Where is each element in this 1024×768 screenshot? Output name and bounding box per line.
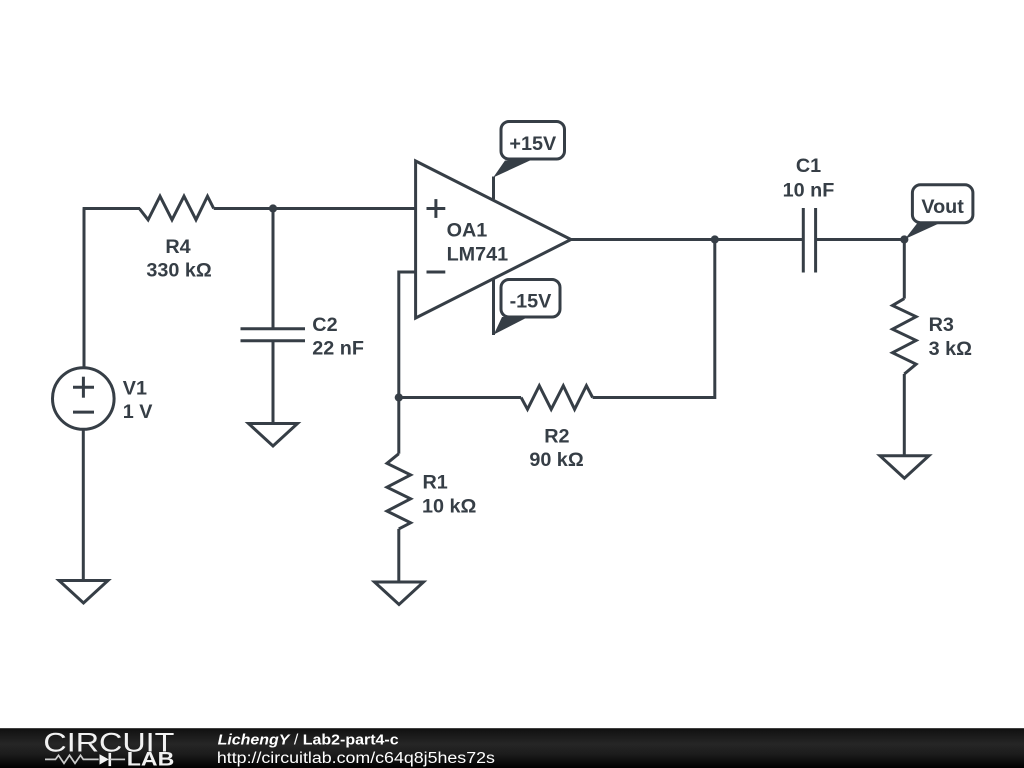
- wire: [903, 374, 906, 456]
- svg-text:V1: V1: [123, 378, 147, 400]
- ground: [375, 582, 424, 605]
- label R4 value: [146, 260, 212, 282]
- junction node Vout: [900, 235, 908, 243]
- label R2 value: [529, 449, 584, 471]
- capacitor C1: [803, 208, 815, 273]
- wire: [272, 341, 275, 424]
- wire: [83, 209, 86, 368]
- label R3: [929, 314, 954, 336]
- svg-text:R1: R1: [423, 472, 448, 494]
- junction node: [269, 204, 277, 212]
- wire: [214, 207, 416, 210]
- svg-text:LichengY / Lab2-part4-c: LichengY / Lab2-part4-c: [218, 733, 399, 749]
- resistor R2: [521, 386, 593, 410]
- svg-text:3 kΩ: 3 kΩ: [929, 338, 972, 360]
- svg-text:http://circuitlab.com/c64q8j5h: http://circuitlab.com/c64q8j5hes72s: [217, 750, 495, 767]
- svg-text:LAB: LAB: [127, 750, 175, 768]
- power flag +15V: [493, 122, 564, 178]
- wire: [399, 396, 521, 399]
- resistor R3: [893, 299, 917, 374]
- logo resistor-diode symbol: [45, 753, 125, 766]
- footer url: [217, 750, 495, 767]
- svg-text:330 kΩ: 330 kΩ: [146, 260, 212, 282]
- ground: [880, 456, 929, 479]
- svg-text:C1: C1: [796, 155, 821, 177]
- label R1 value: [422, 495, 477, 517]
- wire: [82, 429, 85, 580]
- svg-text:OA1: OA1: [447, 219, 488, 241]
- wire: [492, 278, 495, 335]
- svg-text:+15V: +15V: [509, 133, 557, 155]
- wire inverting input: [399, 272, 416, 398]
- wire: [272, 209, 275, 329]
- label V1 value: [123, 401, 153, 423]
- label C1 value: [783, 180, 835, 202]
- wire feedback: [593, 240, 715, 398]
- svg-text:LM741: LM741: [447, 244, 509, 266]
- svg-text:10 nF: 10 nF: [783, 180, 835, 202]
- logo LAB: [127, 750, 175, 768]
- label R1: [423, 472, 448, 494]
- resistor R4: [139, 196, 213, 220]
- svg-text:22 nF: 22 nF: [312, 338, 364, 360]
- ground: [249, 424, 298, 447]
- wire: [903, 240, 906, 299]
- label OA1: [447, 219, 488, 241]
- svg-text:Vout: Vout: [921, 196, 964, 218]
- footer title: [218, 733, 399, 749]
- svg-text:R3: R3: [929, 314, 954, 336]
- resistor R1: [387, 454, 411, 529]
- svg-text:C2: C2: [312, 314, 337, 336]
- svg-text:90 kΩ: 90 kΩ: [529, 449, 584, 471]
- label OA1 part: [447, 244, 509, 266]
- label R4: [165, 236, 190, 258]
- wire: [397, 529, 400, 582]
- label R2: [544, 425, 569, 447]
- label V1: [123, 378, 147, 400]
- power flag -15V: [494, 280, 560, 335]
- capacitor C2: [241, 329, 306, 341]
- footer bar: [0, 728, 1024, 768]
- ground: [59, 581, 108, 604]
- svg-text:R4: R4: [165, 236, 190, 258]
- svg-text:1 V: 1 V: [123, 401, 153, 423]
- wire: [816, 238, 905, 241]
- op-amp OA1: [416, 161, 571, 318]
- junction node: [711, 235, 719, 243]
- svg-text:-15V: -15V: [510, 290, 553, 312]
- junction node: [395, 393, 403, 401]
- svg-text:10 kΩ: 10 kΩ: [422, 495, 477, 517]
- svg-text:R2: R2: [544, 425, 569, 447]
- voltage source V1: [53, 368, 115, 430]
- wire: [397, 398, 400, 454]
- label C2: [312, 314, 337, 336]
- label C2 value: [312, 338, 364, 360]
- logo CIRCUIT: [43, 727, 174, 757]
- label R3 value: [929, 338, 972, 360]
- net flag Vout: [905, 185, 973, 239]
- wire: [492, 177, 495, 200]
- wire: [83, 207, 140, 210]
- wire: [571, 238, 803, 241]
- label C1: [796, 155, 821, 177]
